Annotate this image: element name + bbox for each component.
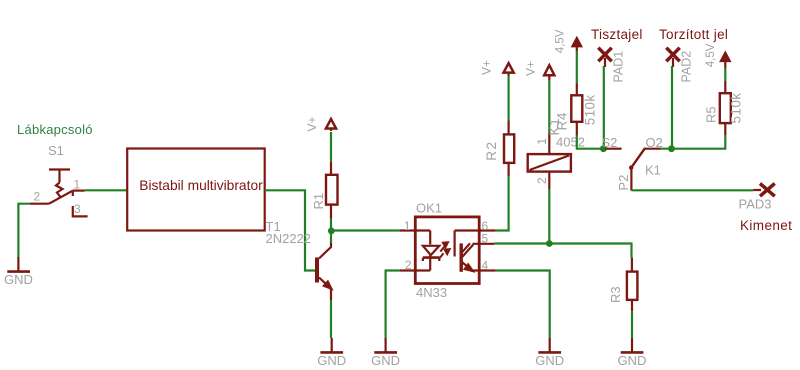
wire P2 to PAD3 [631,189,753,191]
svg-text:4,5V: 4,5V [555,29,567,53]
svg-text:GND: GND [618,353,647,368]
svg-text:2N2222: 2N2222 [266,231,312,246]
svg-text:1: 1 [404,219,411,233]
wire T1 emitter to GND [330,300,332,338]
switch S1 [30,170,88,217]
resistor R3 [627,258,638,312]
svg-text:PAD2: PAD2 [680,51,694,83]
OK1 pin 5 [473,243,495,245]
wire box to T1 base [265,190,315,270]
OK1 pin 2 [400,269,431,271]
wire 4.5V to R4 [576,51,578,83]
svg-text:GND: GND [371,353,400,368]
wire 4.5V to R5 [724,68,726,82]
svg-text:V+: V+ [480,60,494,75]
svg-text:5: 5 [482,232,489,246]
svg-text:K1: K1 [645,163,661,178]
junction node O2 [668,145,675,152]
resistor R2 [504,121,514,177]
wire R3 to GND [631,311,633,338]
junction node T1 collector [328,228,335,235]
svg-text:S1: S1 [48,143,64,158]
svg-text:R2: R2 [484,141,499,161]
svg-text:GND: GND [317,353,346,368]
wire OK1 pin4 to GND [496,271,550,339]
svg-text:Tisztajel: Tisztajel [591,27,643,42]
supply V+ (relay) [544,65,554,80]
resistor R1 [326,162,338,219]
multivibrator box [127,149,265,231]
OK1 internal LED [423,231,439,271]
svg-text:510k: 510k [729,93,744,124]
pad PAD1 [598,48,611,62]
resistor R5 [720,81,731,135]
pad PAD3 [753,184,774,197]
svg-text:Kimenet: Kimenet [740,218,792,233]
wire PAD2 to O2 node [671,66,673,149]
svg-text:510k: 510k [583,94,598,125]
wire PAD1 to S2 node [603,66,605,149]
OK1 pin 6 [455,229,496,231]
OK1 pin 4 [471,269,496,271]
ground GND4 [535,338,564,368]
wire OK1 pin2 to GND [386,271,400,339]
wire S1 pin1 to multivibrator box [85,189,128,191]
junction node pin5/relay [546,240,553,247]
svg-text:4,5V: 4,5V [705,43,717,67]
svg-text:GND: GND [4,272,33,287]
wire O2 node to R5 [661,135,726,148]
wire S1 pin2 to GND [18,204,29,258]
svg-text:Bistabil multivibrator: Bistabil multivibrator [139,178,263,193]
wire R1 to collector node [330,219,332,243]
ground GND5 [618,338,647,368]
svg-text:P2: P2 [616,175,631,191]
svg-text:R5: R5 [704,106,719,123]
resistor R4 [571,83,582,136]
wire relay pin2 down to node [548,189,550,243]
wire R2 to OK1 pin6 [496,177,509,231]
svg-text:3: 3 [74,202,81,216]
svg-text:4N33: 4N33 [416,285,447,300]
supply 4.5V (R4) [572,37,582,51]
ground GND3 [371,338,400,368]
svg-text:1: 1 [535,138,549,145]
OK1 phototransistor [455,231,474,272]
wire V+ to R2 [508,76,510,121]
svg-text:4: 4 [482,259,489,273]
svg-text:2: 2 [405,258,412,272]
svg-text:S2: S2 [602,135,618,150]
wire OK1 pin5 to R3 (long) [494,244,631,258]
svg-text:PAD1: PAD1 [612,51,626,83]
svg-text:R4: R4 [555,112,570,131]
svg-text:2: 2 [535,177,549,184]
svg-text:R3: R3 [608,286,623,303]
OK1 light arrows [440,242,451,258]
svg-text:GND: GND [535,353,564,368]
transistor T1 [317,243,332,301]
svg-text:Torzított jel: Torzított jel [659,27,728,42]
ground GND2 [317,338,346,368]
svg-text:V+: V+ [524,61,538,76]
ground GND1 [4,257,33,287]
svg-text:V+: V+ [305,116,319,131]
svg-text:O2: O2 [646,135,663,150]
svg-text:PAD3: PAD3 [739,197,772,212]
wire V+ to relay pin1 [548,80,550,132]
svg-text:2: 2 [34,190,41,204]
wire V+ to R1 [330,132,332,162]
wire R4 to S2 node [577,136,604,149]
supply V+ (R2) [504,63,514,76]
junction node S2 [600,145,607,152]
svg-text:Lábkapcsoló: Lábkapcsoló [17,122,93,137]
svg-text:4052: 4052 [556,134,585,149]
svg-text:R1: R1 [311,193,326,210]
svg-text:OK1: OK1 [416,201,442,216]
relay coil K1 [528,132,571,189]
relay contact K1 lever [629,148,645,190]
supply V+ (R1) [326,119,336,131]
supply 4.5V (R5) [720,52,730,68]
pad PAD2 [666,48,679,62]
wire node to OK1 pin1 [331,229,399,231]
optocoupler OK1 [415,217,479,284]
OK1 pin 1 [400,229,431,231]
relay contact K1: S pin [605,148,622,150]
svg-text:1: 1 [74,178,81,192]
relay contact K1: O pin [644,148,661,150]
